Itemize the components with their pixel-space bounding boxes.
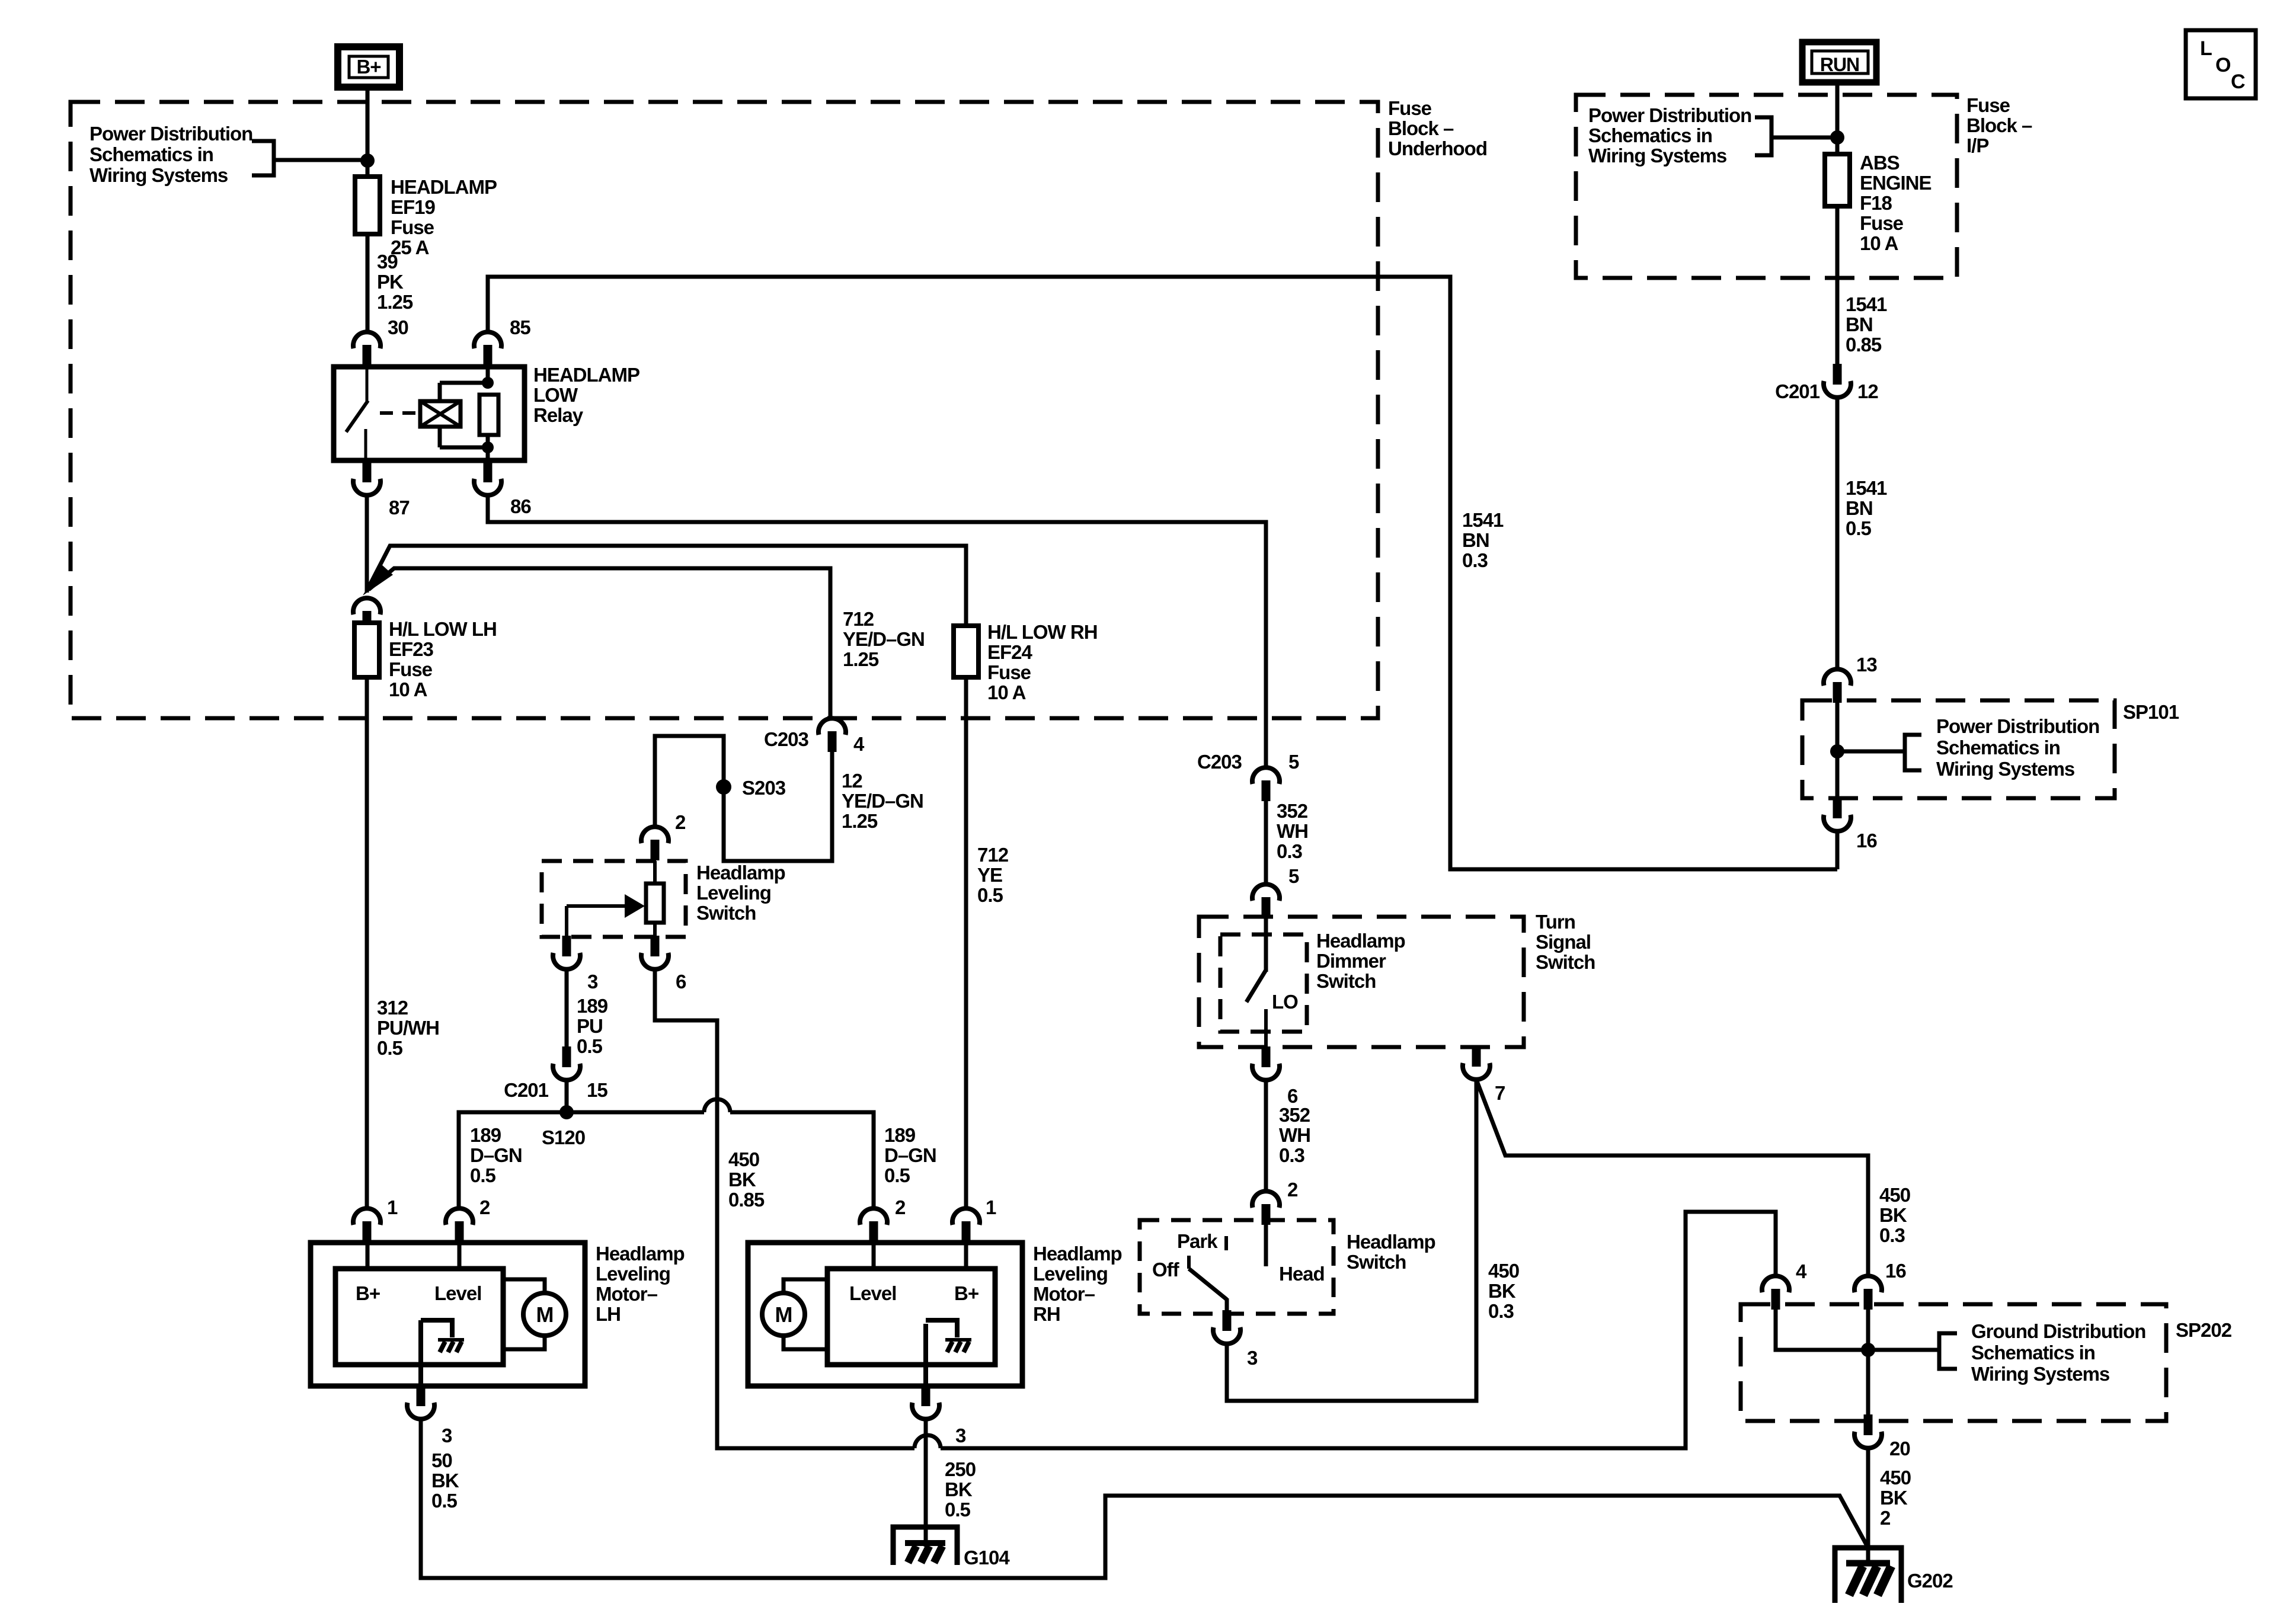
svg-text:Fuse: Fuse (389, 658, 433, 680)
fuse F18 label (1860, 152, 1932, 254)
splice SP202 dashed box (1741, 1304, 2166, 1421)
relay wire coil bottom (440, 427, 488, 460)
wire leveling pin6 to SP202 pin4 (655, 969, 1776, 1448)
Off contact tick (1187, 1256, 1191, 1269)
wire (1264, 918, 1268, 972)
wire label 450 BK 0.85 (728, 1148, 765, 1211)
svg-text:1541: 1541 (1462, 509, 1504, 531)
svg-text:Relay: Relay (533, 404, 584, 426)
wire (1835, 831, 1840, 869)
turn signal switch pin 7 connector (1463, 1046, 1490, 1080)
svg-text:BK: BK (945, 1478, 973, 1500)
svg-text:Fuse: Fuse (1966, 94, 2010, 116)
svg-text:L: L (2200, 37, 2212, 60)
svg-text:Power Distribution: Power Distribution (1588, 104, 1751, 126)
ground distribution note (1971, 1320, 2145, 1385)
svg-text:5: 5 (1288, 865, 1299, 887)
motor RH motor leads (784, 1279, 827, 1349)
pin 15 label (587, 1079, 607, 1101)
svg-text:Headlamp: Headlamp (1347, 1231, 1435, 1253)
svg-text:YE: YE (977, 864, 1002, 886)
svg-text:5: 5 (1288, 751, 1299, 773)
svg-text:Dimmer: Dimmer (1316, 950, 1386, 972)
headlamp leveling motor RH box (748, 1243, 1022, 1386)
svg-text:Level: Level (849, 1282, 896, 1304)
svg-text:C201: C201 (1775, 380, 1820, 402)
motor LH M1 motor (523, 1293, 566, 1336)
pin 3 label (587, 971, 598, 993)
wire EF24 down to motor RH (964, 677, 968, 1209)
svg-text:189: 189 (884, 1124, 916, 1146)
motor RH Level label (849, 1282, 896, 1304)
svg-text:SP202: SP202 (2176, 1319, 2232, 1341)
svg-text:Leveling: Leveling (596, 1263, 670, 1285)
svg-text:Wiring Systems: Wiring Systems (89, 164, 228, 186)
dimmer LO contact (1264, 1009, 1268, 1050)
svg-text:1541: 1541 (1846, 477, 1887, 499)
svg-text:1: 1 (986, 1196, 996, 1218)
svg-text:0.3: 0.3 (1879, 1224, 1905, 1246)
bracket to power distribution note (1905, 735, 1921, 770)
pin 3 label (442, 1425, 452, 1446)
svg-text:O: O (2215, 54, 2231, 76)
svg-text:86: 86 (510, 495, 531, 517)
svg-text:SP101: SP101 (2123, 701, 2179, 723)
wire label 189 D-GN 0.5 right (884, 1124, 936, 1186)
svg-text:0.5: 0.5 (977, 884, 1003, 906)
connector C203 pin 4 (818, 718, 846, 752)
svg-text:YE/D–GN: YE/D–GN (843, 628, 925, 650)
C201 label (1775, 380, 1820, 402)
headlamp switch Head contact (1264, 1225, 1268, 1266)
svg-text:0.3: 0.3 (1279, 1144, 1305, 1166)
wire C203-4 to S203 (655, 736, 832, 861)
svg-text:450: 450 (1488, 1260, 1519, 1282)
svg-text:0.3: 0.3 (1462, 549, 1488, 571)
wire label 352 WH 0.3 (1279, 1104, 1310, 1166)
svg-text:Schematics in: Schematics in (1936, 737, 2060, 758)
wire (1264, 801, 1268, 884)
svg-text:0.3: 0.3 (1277, 840, 1303, 862)
svg-text:Switch: Switch (1347, 1251, 1406, 1273)
svg-text:D–GN: D–GN (884, 1144, 936, 1166)
wire motor LH pin3 ground run (421, 1419, 1868, 1578)
svg-text:HEADLAMP: HEADLAMP (391, 176, 497, 198)
wire label 450 BK 0.3 (1488, 1260, 1519, 1322)
svg-text:0.5: 0.5 (577, 1035, 603, 1057)
leveling switch pin 6 connector (641, 936, 669, 969)
svg-text:0.5: 0.5 (1846, 517, 1872, 539)
wire (1866, 1448, 1870, 1562)
node SP101 (1830, 744, 1844, 758)
svg-text:450: 450 (1880, 1467, 1911, 1489)
wire label 189 D-GN 0.5 left (470, 1124, 522, 1186)
fuse block I/P dashed box (1576, 95, 1957, 278)
svg-text:YE/D–GN: YE/D–GN (842, 790, 923, 812)
pin 2 label (675, 811, 686, 833)
pin 16 label (1885, 1260, 1906, 1282)
wire label 1541 BN 0.5 (1846, 477, 1887, 539)
dimmer switch blade (1246, 970, 1266, 1002)
Park contact tick (1224, 1236, 1228, 1250)
pin 12 label (1857, 380, 1878, 402)
wire label 39 PK 1.25 (377, 251, 413, 313)
pin 5 label (1288, 751, 1299, 773)
C203 label (1197, 751, 1242, 773)
svg-text:Wiring Systems: Wiring Systems (1971, 1363, 2109, 1385)
splice arrowhead (363, 564, 393, 596)
svg-text:BK: BK (1488, 1280, 1516, 1302)
Head label (1279, 1263, 1325, 1285)
svg-text:450: 450 (728, 1148, 759, 1170)
svg-text:2: 2 (1880, 1507, 1891, 1529)
wire pin7 to SP202 pin16 (1476, 1080, 1868, 1276)
splice S203 (716, 779, 731, 795)
svg-text:Headlamp: Headlamp (1033, 1243, 1122, 1265)
SP202 label (2176, 1319, 2232, 1341)
SP101 pin 16 connector (1824, 798, 1851, 831)
svg-text:Off: Off (1152, 1259, 1180, 1281)
relay node B (482, 441, 494, 453)
pin 7 label (1495, 1082, 1505, 1104)
node junction at RUN feed (1830, 130, 1844, 145)
svg-text:Fuse: Fuse (391, 216, 434, 238)
svg-text:12: 12 (842, 770, 862, 792)
splice SP101 dashed box (1802, 700, 2115, 798)
svg-text:M: M (536, 1302, 554, 1327)
turn signal switch dashed box (1199, 917, 1524, 1047)
svg-text:2: 2 (479, 1196, 490, 1218)
svg-text:3: 3 (955, 1425, 966, 1446)
connector C201 pin 15 (553, 1046, 580, 1080)
pin 3 label (955, 1425, 966, 1446)
motor LH motor leads (503, 1279, 545, 1349)
svg-text:3: 3 (442, 1425, 452, 1446)
connector C203 pin 5 (1252, 767, 1280, 801)
svg-text:10 A: 10 A (389, 678, 427, 700)
relay switch fixed lead bottom (364, 429, 367, 460)
svg-text:0.3: 0.3 (1488, 1300, 1514, 1322)
svg-text:2: 2 (675, 811, 686, 833)
headlamp leveling switch dashed box (542, 861, 686, 937)
leveling potentiometer (646, 861, 664, 937)
svg-text:50: 50 (431, 1449, 452, 1471)
wire 86 to headlamp dimmer switch (488, 495, 1266, 767)
svg-text:Leveling: Leveling (1033, 1263, 1108, 1285)
S120 label (542, 1126, 585, 1148)
fuse EF19 label (391, 176, 497, 258)
power distribution note (1588, 104, 1751, 167)
pin 30 connector (353, 332, 380, 366)
wire (1835, 206, 1840, 364)
svg-text:Switch: Switch (1316, 970, 1376, 992)
svg-text:EF23: EF23 (389, 638, 434, 660)
relay node A (482, 377, 494, 389)
motor LH pin 2 connector (446, 1208, 473, 1242)
svg-text:Power Distribution: Power Distribution (89, 123, 252, 145)
svg-text:12: 12 (1857, 380, 1878, 402)
headlamp switch pin 3 connector (1213, 1310, 1240, 1344)
wire EF23 down to motor LH (365, 677, 369, 1209)
svg-text:C201: C201 (504, 1079, 549, 1101)
svg-text:1541: 1541 (1846, 293, 1887, 315)
svg-text:7: 7 (1495, 1082, 1505, 1104)
pin 3 label (1247, 1347, 1258, 1369)
svg-text:Block –: Block – (1388, 117, 1454, 139)
svg-text:B+: B+ (954, 1282, 978, 1304)
pin 85 label (510, 316, 530, 338)
wire (1837, 750, 1905, 754)
svg-text:312: 312 (377, 997, 408, 1019)
pin 87 connector (353, 462, 380, 495)
wire (1835, 82, 1840, 155)
headlamp dimmer switch dashed box (1220, 934, 1307, 1032)
wire through SP101 (1835, 703, 1840, 798)
svg-text:3: 3 (1247, 1347, 1258, 1369)
leveling wiper arrow (567, 894, 645, 937)
svg-text:C: C (2231, 71, 2245, 93)
svg-text:0.85: 0.85 (1846, 334, 1882, 356)
svg-text:1.25: 1.25 (842, 810, 878, 832)
dimmer switch bottom connector pin 6 side (1252, 1046, 1280, 1080)
pin 87 label (389, 497, 410, 518)
svg-text:Wiring Systems: Wiring Systems (1936, 758, 2074, 780)
svg-text:250: 250 (945, 1458, 976, 1480)
pin 4 label (1796, 1260, 1807, 1282)
G104 label (964, 1547, 1010, 1569)
ground G104 (893, 1527, 957, 1565)
motor LH / leveling label (596, 1243, 685, 1325)
wire (365, 495, 369, 593)
svg-text:EF19: EF19 (391, 196, 436, 218)
SP202 pin 4 connector (1762, 1276, 1789, 1310)
motor LH Level label (434, 1282, 481, 1304)
wire S120 to motor LH level (459, 1112, 567, 1209)
svg-text:0.5: 0.5 (884, 1164, 910, 1186)
S203 label (742, 777, 786, 799)
motor LH internal ground (421, 1320, 464, 1352)
svg-text:Signal: Signal (1536, 931, 1591, 953)
svg-text:39: 39 (377, 251, 398, 273)
motor RH / leveling label (1033, 1243, 1122, 1325)
svg-text:ENGINE: ENGINE (1860, 172, 1932, 194)
fuse EF23 label (389, 618, 497, 700)
wire headlamp switch pin3 to pin7 (1227, 1080, 1476, 1401)
wire label 50 BK 0.5 (431, 1449, 459, 1512)
svg-text:RUN: RUN (1820, 54, 1859, 75)
svg-text:85: 85 (510, 316, 530, 338)
wire S120 to motor RH level (567, 1099, 874, 1209)
connector C201 pin 12 (1824, 364, 1851, 398)
svg-text:189: 189 (470, 1124, 501, 1146)
SP101 label (2123, 701, 2179, 723)
wire label 352 WH 0.3 (1277, 800, 1308, 862)
leveling switch label (696, 862, 785, 924)
Park label (1177, 1230, 1218, 1252)
svg-text:Schematics in: Schematics in (1588, 124, 1712, 146)
svg-text:H/L LOW RH: H/L LOW RH (987, 621, 1098, 643)
svg-text:BK: BK (1879, 1204, 1907, 1226)
splice S120 (559, 1105, 574, 1119)
pin 1 label (387, 1196, 398, 1218)
svg-text:H/L LOW LH: H/L LOW LH (389, 618, 497, 640)
fuse block underhood label (1388, 97, 1487, 159)
wire label 712 YE 0.5 (977, 844, 1009, 906)
pin 1 label (986, 1196, 996, 1218)
relay switch fixed lead top (366, 367, 369, 402)
svg-text:4: 4 (853, 733, 865, 755)
svg-text:15: 15 (587, 1079, 607, 1101)
pin 86 label (510, 495, 531, 517)
svg-text:Schematics in: Schematics in (89, 143, 213, 165)
svg-text:BN: BN (1846, 313, 1873, 335)
svg-text:Fuse: Fuse (1388, 97, 1432, 119)
svg-text:352: 352 (1279, 1104, 1310, 1126)
wire label 312 PU/WH 0.5 (377, 997, 439, 1059)
svg-text:712: 712 (843, 608, 874, 630)
turn signal switch label (1536, 911, 1595, 973)
svg-text:BN: BN (1846, 497, 1873, 519)
fuse EF19 HEADLAMP 25A (355, 177, 380, 234)
motor RH pin 3 connector (912, 1385, 939, 1419)
svg-text:1.25: 1.25 (843, 648, 879, 670)
headlamp switch label (1347, 1231, 1435, 1273)
svg-text:LOW: LOW (533, 384, 578, 406)
power distribution note (89, 123, 252, 186)
wire label 1541 BN 0.85 (1846, 293, 1887, 356)
svg-text:20: 20 (1889, 1438, 1910, 1459)
svg-text:450: 450 (1879, 1184, 1910, 1206)
motor LH ground lead (418, 1320, 423, 1386)
wire label 12 YE/D-GN 1.25 (842, 770, 923, 832)
wire branch to EF24 (369, 546, 966, 626)
svg-text:Headlamp: Headlamp (696, 862, 785, 884)
fuse EF24 H/L LOW RH 10A (954, 626, 978, 677)
svg-text:Wiring Systems: Wiring Systems (1588, 145, 1726, 167)
pin 6 label (1287, 1085, 1298, 1107)
svg-text:Headlamp: Headlamp (596, 1243, 685, 1265)
relay coil box (420, 401, 461, 427)
wire motor RH pin3 to G104 (924, 1419, 928, 1547)
bracket to ground distribution note (1939, 1333, 1957, 1369)
svg-text:4: 4 (1796, 1260, 1807, 1282)
wire (274, 158, 367, 162)
motor LH pin 3 connector (407, 1385, 434, 1419)
svg-text:G202: G202 (1907, 1570, 1953, 1592)
pin 5 label dimmer (1288, 865, 1299, 887)
motor LH pin leads (367, 1243, 459, 1269)
svg-text:PK: PK (377, 271, 404, 293)
svg-text:16: 16 (1856, 830, 1877, 852)
leveling switch pin 3 connector (553, 936, 580, 969)
wire (1868, 1348, 1939, 1352)
svg-text:D–GN: D–GN (470, 1144, 522, 1166)
svg-text:Fuse: Fuse (1860, 212, 1904, 234)
svg-text:PU/WH: PU/WH (377, 1017, 439, 1039)
svg-text:Underhood: Underhood (1388, 137, 1487, 159)
svg-text:RH: RH (1033, 1303, 1060, 1325)
relay coil feed wire from 85 (488, 277, 1837, 869)
svg-text:Switch: Switch (1536, 951, 1595, 973)
svg-text:HEADLAMP: HEADLAMP (533, 364, 639, 386)
headlamp switch blade (1189, 1269, 1227, 1314)
wire (565, 1080, 569, 1112)
wire (1835, 398, 1840, 670)
svg-text:Park: Park (1177, 1230, 1218, 1252)
node junction at B+ feed (360, 153, 375, 168)
pin 16 label (1856, 830, 1877, 852)
ground G202 (1835, 1548, 1901, 1603)
svg-text:EF24: EF24 (987, 641, 1033, 663)
wire label 189 PU 0.5 (577, 995, 608, 1057)
wire (1771, 136, 1837, 140)
headlamp switch dashed box (1140, 1220, 1334, 1314)
svg-text:G104: G104 (964, 1547, 1010, 1569)
svg-text:2: 2 (1287, 1179, 1298, 1201)
wire label 450 BK 2 (1880, 1467, 1911, 1529)
wire (565, 969, 569, 1047)
svg-text:C203: C203 (1197, 751, 1242, 773)
svg-text:WH: WH (1279, 1124, 1310, 1146)
power distribution note (1936, 715, 2099, 780)
wire branch to C203-4 (369, 568, 830, 718)
svg-text:10 A: 10 A (1860, 232, 1898, 254)
svg-text:6: 6 (676, 971, 686, 993)
svg-text:712: 712 (977, 844, 1009, 866)
svg-text:BK: BK (431, 1470, 459, 1491)
relay resistor (479, 395, 498, 435)
svg-text:PU: PU (577, 1015, 603, 1037)
svg-text:13: 13 (1856, 654, 1877, 676)
node SP202 (1861, 1343, 1875, 1357)
bracket to power distribution note (252, 141, 274, 175)
svg-text:0.5: 0.5 (945, 1499, 971, 1521)
wire (1264, 1080, 1268, 1191)
svg-text:LO: LO (1272, 991, 1298, 1013)
svg-text:BN: BN (1462, 529, 1489, 551)
svg-text:16: 16 (1885, 1260, 1906, 1282)
motor LH pin 1 connector (353, 1208, 380, 1242)
motor RH B+ label (954, 1282, 978, 1304)
svg-text:2: 2 (895, 1196, 906, 1218)
wire label 712 YE/D-GN 1.25 (843, 608, 925, 670)
motor RH M2 motor (762, 1293, 805, 1336)
motor RH pin 1 connector (952, 1208, 980, 1242)
svg-text:Fuse: Fuse (987, 661, 1031, 683)
dimmer switch pin 5 connector (1252, 884, 1280, 918)
C203 label (764, 728, 809, 750)
svg-text:Leveling: Leveling (696, 882, 771, 904)
svg-text:ABS: ABS (1860, 152, 1900, 174)
leveling switch pin 2 connector (641, 827, 669, 860)
svg-text:Motor–: Motor– (596, 1283, 658, 1305)
svg-text:I/P: I/P (1966, 135, 1988, 156)
pin 86 connector (474, 462, 501, 495)
wire (366, 234, 370, 332)
bracket to power distribution note (1755, 117, 1771, 155)
svg-text:S203: S203 (742, 777, 786, 799)
fuse block underhood dashed box (71, 102, 1378, 718)
svg-text:189: 189 (577, 995, 608, 1017)
power terminal RUN (1802, 42, 1876, 82)
svg-text:3: 3 (587, 971, 598, 993)
G202 label (1907, 1570, 1953, 1592)
fuse F18 ABS ENGINE 10A (1825, 154, 1850, 206)
pin 13 label (1856, 654, 1877, 676)
svg-text:Headlamp: Headlamp (1316, 930, 1405, 952)
svg-text:Block –: Block – (1966, 114, 2032, 136)
svg-text:C203: C203 (764, 728, 809, 750)
